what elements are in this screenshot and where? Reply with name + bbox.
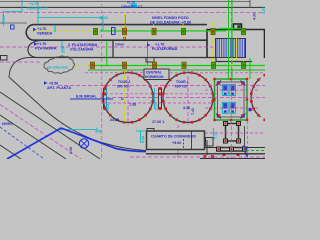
cyan dimension lines (4, 0, 214, 143)
ramp frame (216, 39, 246, 58)
wire diagonal L6 (0, 145, 21, 159)
svg-text:CUARTO DE COMANDOS: CUARTO DE COMANDOS (151, 135, 196, 139)
blue EJE line (70, 98, 113, 100)
ramp hatch (217, 39, 245, 57)
green feed verticals (106, 41, 108, 66)
wall bar tank T1 (159, 87, 162, 110)
column Q1 (91, 62, 95, 68)
magenta axes (0, 0, 265, 159)
svg-text:TOUR 2: TOUR 2 (118, 80, 130, 84)
svg-text:3.21: 3.21 (262, 7, 266, 14)
rotated dims blue (69, 13, 257, 154)
box above building (234, 24, 242, 30)
road centerline magenta L3 (0, 105, 81, 160)
column Q4 (182, 62, 186, 68)
svg-text:NIVEL: NIVEL (2, 122, 14, 126)
CENTRAL HORMIGON box (144, 69, 169, 80)
svg-text:+1.70: +1.70 (37, 27, 46, 31)
svg-text:PLATAFORMA: PLATAFORMA (152, 47, 178, 51)
pump station (215, 79, 248, 120)
svg-text:PZA RAMPA: PZA RAMPA (35, 47, 57, 51)
green lines (100, 30, 226, 32)
svg-text:eje soterrado: eje soterrado (47, 66, 68, 70)
svg-text:CENTRO CT: CENTRO CT (27, 7, 49, 11)
road edge curve L1 from platform, bending around tanks (9, 58, 146, 151)
svg-text:5.17: 5.17 (214, 132, 218, 139)
wire second line (0, 6, 265, 8)
svg-text:600 Ton: 600 Ton (175, 85, 188, 89)
svg-text:+5.60: +5.60 (172, 141, 181, 145)
svg-text:600 Ton: 600 Ton (117, 85, 130, 89)
svg-text:7.43: 7.43 (191, 108, 195, 115)
svg-text:HORMIGON: HORMIGON (145, 75, 164, 79)
svg-text:+5.56: +5.56 (49, 82, 58, 86)
corner vertical (249, 0, 251, 7)
svg-text:1.48: 1.48 (95, 130, 101, 134)
svg-text:3.00: 3.00 (62, 46, 66, 53)
svg-text:VOLCADURA: VOLCADURA (70, 48, 94, 52)
E-7 tag / centro label (131, 4, 137, 8)
svg-text:APZ. PLANTA: APZ. PLANTA (47, 86, 71, 90)
column Q5 (212, 62, 216, 68)
red marker on line (123, 37, 126, 40)
wire top line (0, 1, 250, 3)
cyan texts (27, 2, 108, 20)
svg-text:EJE BRSAL: EJE BRSAL (76, 95, 97, 99)
CUARTO building (147, 131, 205, 150)
pump group A (222, 85, 235, 96)
building right (207, 30, 265, 59)
tank T3 partial right edge (251, 78, 260, 117)
blue pipe bottom (7, 128, 146, 159)
tank T1 (163, 73, 213, 123)
svg-text:2. PLATAFORMA: 2. PLATAFORMA (68, 43, 98, 47)
wall bar tank T2 (104, 87, 107, 110)
svg-text:4.30: 4.30 (253, 13, 257, 20)
column Q6 (242, 62, 246, 68)
svg-text:FLEJ: FLEJ (2, 15, 6, 24)
side rail (244, 126, 246, 146)
H frame below pump (223, 121, 241, 142)
column P6 (242, 28, 246, 34)
platform vereda stadium (26, 25, 207, 41)
platform wall (112, 40, 114, 57)
svg-text:VEREDA: VEREDA (37, 32, 53, 36)
pump group B (222, 102, 235, 113)
valve circle (79, 139, 88, 148)
svg-text:3.30: 3.30 (183, 106, 190, 110)
svg-text:+1.70: +1.70 (155, 43, 164, 47)
blue marker between columns (112, 28, 116, 35)
column P3 (152, 28, 156, 34)
buried pipe blue dashed L5 (0, 127, 44, 159)
svg-text:5.44: 5.44 (141, 136, 145, 143)
svg-text:2.08: 2.08 (69, 147, 73, 154)
cyan tick vereda (54, 25, 56, 32)
svg-text:24.65: 24.65 (110, 118, 119, 122)
column P4 (182, 28, 186, 34)
svg-text:17.00 1: 17.00 1 (152, 120, 164, 124)
revision cloud (44, 56, 75, 73)
svg-text:28.26: 28.26 (99, 16, 108, 20)
svg-text:12.27: 12.27 (155, 102, 159, 111)
svg-text:14can: 14can (115, 43, 124, 47)
yellow axes (33, 13, 244, 124)
level flags (33, 28, 150, 85)
svg-text:D: D (121, 97, 124, 101)
utility box left edge (1, 56, 8, 61)
svg-text:DE SOLDADURA -+5.80: DE SOLDADURA -+5.80 (150, 21, 191, 25)
S pipe (243, 146, 248, 156)
bottom road lines (146, 153, 265, 155)
svg-text:+1.70: +1.70 (127, 0, 135, 4)
svg-text:1.98: 1.98 (129, 103, 136, 107)
bottom manifold (216, 148, 246, 152)
column P1 (94, 28, 98, 34)
notch hopper (146, 58, 154, 63)
tank T2 (103, 73, 153, 123)
svg-text:TOUR 1: TOUR 1 (176, 80, 188, 84)
wire diagonal L4 (0, 115, 66, 159)
column Q2 (123, 62, 127, 68)
blue box top-left (11, 25, 15, 29)
svg-text:CENTRO CT: CENTRO CT (121, 5, 143, 9)
svg-text:NIVEL FONDO POZO: NIVEL FONDO POZO (152, 16, 189, 20)
svg-text:+1.70: +1.70 (29, 2, 38, 6)
platform lower strip left end (28, 40, 252, 61)
column P2 (123, 28, 127, 34)
column P5 (211, 28, 215, 34)
axis magenta top (0, 11, 265, 13)
wire left road edge (0, 22, 27, 24)
wire diagonal L2 (0, 92, 100, 159)
svg-text:15.47: 15.47 (106, 102, 110, 111)
svg-text:+1.70: +1.70 (37, 42, 46, 46)
column Q3 (153, 62, 157, 68)
rotated dims cyan (62, 7, 266, 143)
